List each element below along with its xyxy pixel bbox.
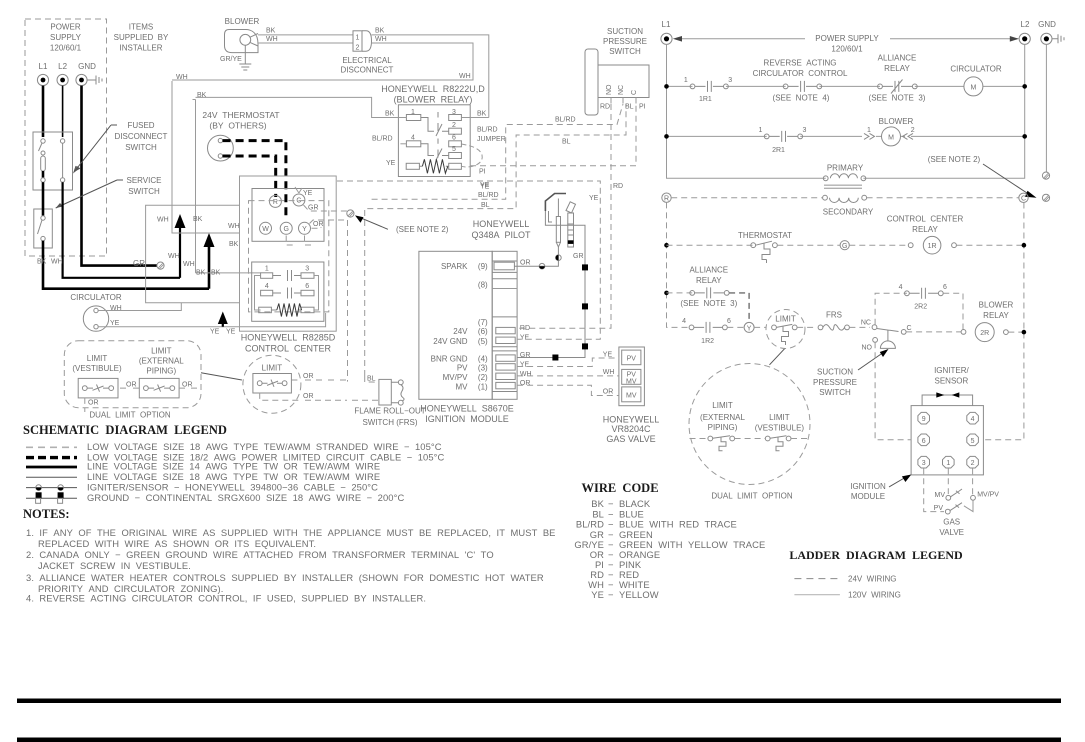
bottom bar 2 [17, 738, 1061, 742]
net BL/RD [372, 104, 623, 199]
svg-text:M: M [888, 134, 894, 141]
svg-text:BK: BK [266, 28, 276, 35]
svg-text:WH: WH [520, 371, 532, 378]
svg-text:YE: YE [226, 329, 236, 336]
svg-text:2R: 2R [980, 330, 989, 337]
svg-text:PV: PV [627, 371, 637, 378]
svg-text:1: 1 [684, 77, 688, 84]
svg-text:(VESTIBULE): (VESTIBULE) [755, 423, 805, 432]
wire BK into pin1 [196, 97, 407, 117]
svg-text:BK: BK [37, 259, 47, 266]
pilot burner bracket [545, 194, 566, 212]
screw note2 [347, 210, 354, 217]
GR wire from sensor [517, 225, 585, 357]
legend line 5 igniter [26, 487, 77, 489]
svg-text:SENSOR: SENSOR [935, 376, 969, 385]
svg-text:NO: NO [862, 345, 873, 352]
svg-text:WH: WH [266, 36, 278, 43]
GND wire to screw [1045, 44, 1047, 172]
svg-text:2R1: 2R1 [772, 147, 785, 154]
svg-text:MV: MV [456, 382, 469, 391]
svg-text:BL/RD: BL/RD [372, 136, 393, 143]
svg-text:OR: OR [182, 382, 193, 389]
switch L2 [60, 139, 64, 143]
svg-text:YE: YE [520, 335, 530, 342]
coil row [259, 307, 272, 313]
wire WH L2 run [63, 182, 180, 278]
wire BK blower [258, 34, 353, 36]
svg-text:C: C [1021, 196, 1026, 203]
SECTION: pilot module valve [337, 104, 659, 444]
svg-text:WH: WH [183, 261, 195, 268]
svg-text:3: 3 [305, 266, 309, 273]
terminal W [260, 222, 272, 234]
svg-text:VR8204C: VR8204C [611, 424, 651, 434]
svg-text:YE: YE [303, 190, 313, 197]
thermostat circle [208, 135, 234, 161]
heavy dashed wire to R [223, 156, 276, 197]
svg-text:BL: BL [367, 376, 376, 383]
svg-text:WH: WH [51, 259, 63, 266]
svg-text:HONEYWELL R8222U,D: HONEYWELL R8222U,D [381, 84, 485, 94]
svg-text:WIRE CODE: WIRE CODE [581, 481, 658, 495]
svg-text:WH: WH [168, 253, 180, 260]
svg-text:RD: RD [600, 104, 610, 111]
svg-text:6: 6 [943, 284, 947, 291]
svg-text:PV: PV [934, 505, 944, 512]
svg-text:BK: BK [375, 28, 385, 35]
svg-text:WH: WH [157, 217, 169, 224]
limit switch row ladder [690, 438, 708, 440]
svg-text:PI: PI [639, 104, 646, 111]
svg-text:(SEE NOTE 3): (SEE NOTE 3) [680, 299, 737, 308]
svg-text:Y: Y [302, 226, 307, 233]
svg-text:YE: YE [210, 329, 220, 336]
octagon terminals [918, 412, 979, 468]
svg-text:MV: MV [626, 378, 637, 385]
legend line 1 [26, 446, 77, 448]
svg-text:CIRCULATOR: CIRCULATOR [950, 65, 1001, 74]
row1 circulator line [667, 85, 1025, 87]
svg-text:120/60/1: 120/60/1 [50, 44, 82, 53]
svg-text:WH: WH [603, 369, 615, 376]
svg-text:BK: BK [196, 270, 206, 277]
svg-text:MV: MV [626, 392, 637, 399]
switch body [585, 49, 598, 115]
svg-text:(SEE NOTE 2): (SEE NOTE 2) [928, 155, 981, 164]
svg-text:PV: PV [457, 364, 468, 373]
svg-text:BK: BK [591, 498, 604, 509]
SECTION: ladder [661, 20, 1064, 537]
svg-text:MV/PV: MV/PV [443, 373, 469, 382]
svg-text:BLOWER: BLOWER [979, 300, 1014, 309]
valve wire WH [517, 375, 619, 377]
svg-text:LIMIT: LIMIT [87, 354, 108, 363]
svg-text:POWER SUPPLY: POWER SUPPLY [815, 34, 879, 43]
svg-text:BL: BL [481, 202, 490, 209]
svg-text:L2: L2 [1021, 20, 1030, 29]
svg-text:R: R [664, 196, 669, 203]
svg-text:5: 5 [971, 438, 975, 445]
svg-text:3. ALLIANCE WATER HEATER C: 3. ALLIANCE WATER HEATER CONTROLS SUPPLI… [26, 572, 544, 583]
svg-text:JACKET SCREW IN VESTIBULE.: JACKET SCREW IN VESTIBULE. [38, 560, 191, 571]
svg-text:BK: BK [477, 111, 487, 118]
svg-text:4: 4 [971, 416, 975, 423]
svg-text:BL/RD: BL/RD [555, 117, 576, 124]
svg-text:6: 6 [922, 438, 926, 445]
svg-text:BK: BK [385, 111, 395, 118]
svg-text:OR: OR [303, 393, 314, 400]
wire GND thick [82, 86, 158, 266]
svg-text:YE: YE [520, 361, 530, 368]
svg-text:W: W [262, 226, 269, 233]
ground square markers [582, 264, 588, 270]
svg-text:RELAY: RELAY [884, 64, 910, 73]
service switch box [34, 209, 53, 248]
blade 2 [421, 144, 449, 160]
svg-text:GR/YE: GR/YE [574, 539, 604, 550]
wire BL/RD pin4 [397, 143, 406, 145]
svg-text:YE: YE [386, 160, 396, 167]
svg-text:BK: BK [193, 216, 203, 223]
svg-text:2: 2 [356, 45, 360, 52]
svg-text:2: 2 [971, 460, 975, 467]
svg-text:SPARK: SPARK [441, 262, 468, 271]
svg-text:1: 1 [946, 460, 950, 467]
svg-text:SUCTION: SUCTION [607, 27, 643, 36]
svg-text:REPLACED WITH WIRE AS SHOW: REPLACED WITH WIRE AS SHOWN OR ITS EQUIV… [38, 538, 316, 549]
svg-text:JUMPER: JUMPER [477, 136, 506, 143]
svg-text:BL/RD: BL/RD [576, 518, 604, 529]
svg-text:R: R [273, 199, 278, 206]
svg-text:1: 1 [758, 127, 762, 134]
svg-text:RELAY: RELAY [696, 276, 722, 285]
leader to limit circle [201, 373, 242, 380]
right rail 120V [863, 44, 1024, 178]
svg-text:PIPING): PIPING) [146, 367, 176, 376]
terminal C [293, 194, 305, 206]
wire WH blower [258, 42, 353, 44]
ground below blower [239, 45, 251, 70]
svg-text:GR: GR [573, 253, 584, 260]
stubs from G and Y down [286, 236, 313, 246]
svg-text:YE: YE [589, 195, 599, 202]
svg-text:GR: GR [520, 352, 531, 359]
wire BK to relay [372, 35, 489, 118]
24V dashed bus R-secondary-C [671, 197, 1019, 199]
svg-text:HONEYWELL: HONEYWELL [473, 219, 530, 229]
LIMIT circle schematic [243, 355, 301, 413]
ignition module ladder box [911, 406, 983, 475]
svg-text:BK: BK [197, 92, 207, 99]
ground symbol [87, 76, 102, 85]
SECTION: suction switch schematic [585, 27, 649, 115]
arrow BK up [208, 245, 211, 289]
svg-text:1: 1 [265, 266, 269, 273]
svg-text:1. IF ANY OF THE ORIGINAL: 1. IF ANY OF THE ORIGINAL WIRE AS SUPPLI… [26, 527, 556, 538]
svg-text:IGNITER/SENSOR − HONEYWELL: IGNITER/SENSOR − HONEYWELL 394800−36 CAB… [87, 481, 378, 492]
svg-text:(8): (8) [478, 281, 488, 290]
svg-text:2: 2 [911, 127, 915, 134]
fuse L1 [41, 139, 45, 143]
svg-text:(1): (1) [478, 382, 488, 391]
row2 blower line [667, 135, 1025, 137]
svg-text:RD: RD [613, 183, 623, 190]
relay block box [252, 262, 324, 321]
svg-text:REVERSE ACTING: REVERSE ACTING [764, 59, 837, 68]
legend line 4 [26, 476, 77, 478]
svg-text:NO: NO [606, 84, 613, 95]
dual limit option ladder circle [689, 364, 810, 485]
spark wire [514, 247, 558, 266]
svg-text:WH: WH [459, 73, 471, 80]
svg-text:SWITCH: SWITCH [128, 187, 160, 196]
svg-text:120/60/1: 120/60/1 [831, 45, 863, 54]
wire BK pin3 up [461, 117, 488, 119]
svg-text:24V: 24V [453, 327, 468, 336]
left rail 120V [667, 44, 826, 178]
svg-text:120V WIRING: 120V WIRING [848, 591, 901, 600]
terminal Y [299, 222, 311, 234]
svg-text:GAS VALVE: GAS VALVE [606, 434, 655, 444]
svg-text:4: 4 [265, 283, 269, 290]
gas valve ladder [924, 468, 944, 511]
coil row [406, 163, 419, 169]
core [824, 185, 862, 188]
svg-text:YE: YE [110, 320, 120, 327]
svg-text:− YELLOW: − YELLOW [608, 589, 659, 600]
svg-text:WH: WH [228, 223, 240, 230]
svg-text:(6): (6) [478, 327, 488, 336]
svg-text:(EXTERNAL: (EXTERNAL [700, 413, 745, 422]
svg-text:(BY OTHERS): (BY OTHERS) [209, 121, 266, 131]
svg-text:1R2: 1R2 [701, 338, 714, 345]
legend line 6 ground [26, 497, 77, 499]
svg-text:BK: BK [229, 241, 239, 248]
svg-text:GND: GND [1038, 20, 1056, 29]
svg-text:BLOWER: BLOWER [225, 17, 260, 26]
svg-text:1R: 1R [928, 243, 937, 250]
net RD [517, 104, 611, 328]
svg-text:HONEYWELL R8285D: HONEYWELL R8285D [241, 333, 336, 343]
wire circulator WH [98, 303, 181, 311]
svg-text:G: G [283, 226, 288, 233]
svg-text:SERVICE: SERVICE [127, 176, 162, 185]
arrow WH up [179, 226, 181, 278]
svg-text:HONEYWELL: HONEYWELL [603, 414, 660, 424]
YE label at C [295, 187, 302, 193]
svg-text:BLOWER: BLOWER [879, 117, 914, 126]
junction box outline [146, 205, 240, 303]
svg-text:1: 1 [356, 35, 360, 42]
svg-text:OR: OR [88, 400, 99, 407]
svg-text:PRESSURE: PRESSURE [813, 378, 857, 387]
svg-text:ITEMS: ITEMS [129, 23, 153, 32]
bottom bar 1 [17, 699, 1061, 704]
svg-text:OR: OR [313, 221, 324, 228]
svg-text:GAS: GAS [943, 517, 960, 526]
GR from C to screw [304, 205, 351, 211]
arrow YE up [222, 322, 224, 327]
2R2 branch [875, 293, 907, 325]
svg-text:BL: BL [625, 104, 634, 111]
svg-text:SUPPLIED BY: SUPPLIED BY [114, 33, 169, 42]
svg-text:GR/YE: GR/YE [220, 56, 242, 63]
svg-text:(7): (7) [478, 318, 488, 327]
svg-text:DISCONNECT: DISCONNECT [341, 66, 394, 75]
svg-text:YE: YE [591, 589, 604, 600]
node Y [744, 322, 754, 332]
sensor rod [566, 202, 576, 213]
svg-text:SECONDARY: SECONDARY [823, 208, 874, 217]
svg-text:LIMIT: LIMIT [775, 315, 796, 324]
svg-text:CONTROL CENTER: CONTROL CENTER [887, 215, 964, 224]
svg-text:− GREEN WITH YELLOW TRACE: − GREEN WITH YELLOW TRACE [608, 539, 765, 550]
node R [662, 193, 671, 202]
svg-text:Y: Y [747, 325, 752, 332]
svg-text:LIMIT: LIMIT [262, 363, 283, 372]
legend line 2 [26, 456, 77, 459]
svg-text:RELAY: RELAY [912, 225, 938, 234]
wire circulator YE [98, 313, 325, 327]
svg-text:BNR GND: BNR GND [431, 354, 468, 363]
net PI [470, 104, 636, 166]
svg-text:G: G [842, 243, 847, 250]
valve wire OR [517, 385, 619, 395]
svg-text:INSTALLER: INSTALLER [120, 44, 163, 53]
svg-text:24V THERMOSTAT: 24V THERMOSTAT [202, 110, 279, 120]
svg-text:YE: YE [603, 352, 613, 359]
svg-text:Q348A PILOT: Q348A PILOT [471, 230, 531, 240]
svg-text:SWITCH (FRS): SWITCH (FRS) [362, 418, 417, 427]
wire WH net vertical [172, 81, 240, 233]
screw gnd [1042, 172, 1049, 179]
svg-text:4: 4 [682, 318, 686, 325]
wire BK net vertical [196, 100, 261, 273]
wire L2 [62, 86, 64, 137]
SECTION: power supply [25, 19, 326, 336]
svg-text:4. REVERSE ACTING CIRCULATO: 4. REVERSE ACTING CIRCULATOR CONTROL, IF… [26, 593, 426, 604]
svg-text:(VESTIBULE): (VESTIBULE) [72, 364, 122, 373]
SECTION: relay R8222 [196, 84, 506, 209]
svg-text:YE: YE [480, 184, 490, 191]
svg-text:WH: WH [375, 36, 387, 43]
svg-text:FUSED: FUSED [127, 121, 154, 130]
left dashed into 6 [875, 342, 911, 440]
svg-text:BK: BK [211, 270, 221, 277]
svg-text:GND: GND [78, 62, 96, 71]
svg-text:LIMIT: LIMIT [712, 401, 733, 410]
svg-text:PRIMARY: PRIMARY [827, 164, 864, 173]
limit switch box 2 [139, 378, 179, 398]
svg-text:LADDER DIAGRAM LEGEND: LADDER DIAGRAM LEGEND [789, 548, 963, 562]
svg-text:L1: L1 [662, 20, 671, 29]
OR from Y [310, 220, 348, 228]
valve wire YE [517, 358, 619, 367]
net YE horizontal [337, 181, 600, 339]
screw at C [1042, 194, 1049, 201]
secondary [823, 195, 828, 200]
terminal G [280, 222, 292, 234]
svg-text:VALVE: VALVE [939, 528, 964, 537]
svg-text:6: 6 [305, 283, 309, 290]
SECTION: limit/FRS [64, 220, 425, 427]
svg-text:NOTES:: NOTES: [23, 507, 70, 521]
wire L1 thick [42, 86, 45, 137]
svg-text:OR: OR [126, 382, 137, 389]
svg-text:SUCTION: SUCTION [817, 368, 853, 377]
svg-text:CIRCULATOR CONTROL: CIRCULATOR CONTROL [753, 69, 848, 78]
svg-text:FRS: FRS [826, 311, 842, 320]
svg-text:3: 3 [803, 127, 807, 134]
svg-text:BL: BL [562, 139, 571, 146]
svg-text:LIMIT: LIMIT [151, 347, 172, 356]
terminal strip box [252, 189, 324, 242]
svg-text:6: 6 [727, 318, 731, 325]
svg-text:DUAL LIMIT OPTION: DUAL LIMIT OPTION [711, 491, 793, 500]
svg-text:L2: L2 [58, 62, 67, 71]
svg-text:9: 9 [922, 416, 926, 423]
svg-text:C: C [631, 90, 638, 95]
power supply dashed box [25, 19, 107, 256]
terminal R [269, 195, 281, 207]
svg-text:ELECTRICAL: ELECTRICAL [342, 56, 392, 65]
blade 1 [421, 118, 449, 137]
svg-text:SCHEMATIC DIAGRAM LEGEND: SCHEMATIC DIAGRAM LEGEND [23, 423, 227, 437]
electrical disconnect plug [353, 31, 362, 51]
grey links in relay block [255, 276, 319, 311]
24V stat box outline [193, 99, 196, 102]
svg-text:2. CANADA ONLY − GREEN GR: 2. CANADA ONLY − GREEN GROUND WIRE ATTAC… [26, 549, 494, 560]
legend line 3 [26, 466, 77, 469]
svg-text:(SEE NOTE 2): (SEE NOTE 2) [396, 225, 449, 234]
svg-text:(2): (2) [478, 373, 488, 382]
ground symbol ladder [1052, 34, 1064, 43]
SECTION: blower top [172, 17, 489, 118]
svg-text:L1: L1 [39, 62, 48, 71]
svg-text:BL/RD: BL/RD [477, 127, 498, 134]
svg-text:SUPPLY: SUPPLY [50, 33, 82, 42]
svg-text:OR: OR [520, 260, 531, 267]
heavy dashed wire to G [223, 141, 286, 220]
svg-text:1R1: 1R1 [699, 96, 712, 103]
OR bottom [260, 393, 379, 400]
svg-text:SWITCH: SWITCH [609, 47, 641, 56]
svg-text:THERMOSTAT: THERMOSTAT [738, 231, 792, 240]
svg-text:IGNITION: IGNITION [850, 482, 886, 491]
svg-text:(BLOWER RELAY): (BLOWER RELAY) [394, 95, 473, 105]
svg-text:1: 1 [867, 127, 871, 134]
svg-text:PIPING): PIPING) [708, 423, 738, 432]
svg-text:PRESSURE: PRESSURE [603, 37, 647, 46]
svg-text:24V GND: 24V GND [433, 337, 467, 346]
net BL [365, 104, 626, 376]
strip dividers [492, 261, 517, 392]
svg-text:OR: OR [303, 373, 314, 380]
OR wires from limit [291, 379, 347, 381]
svg-text:ALLIANCE: ALLIANCE [689, 266, 728, 275]
svg-text:SWITCH: SWITCH [125, 143, 157, 152]
dual limit option rounded box [64, 341, 201, 408]
gas valve box [619, 347, 645, 406]
svg-text:GR: GR [308, 205, 319, 212]
svg-text:3: 3 [922, 460, 926, 467]
svg-text:GR: GR [133, 259, 145, 268]
right dashed rail [983, 203, 1024, 440]
svg-text:MV: MV [935, 492, 946, 499]
svg-text:(3): (3) [478, 364, 488, 373]
node C [1019, 193, 1028, 202]
